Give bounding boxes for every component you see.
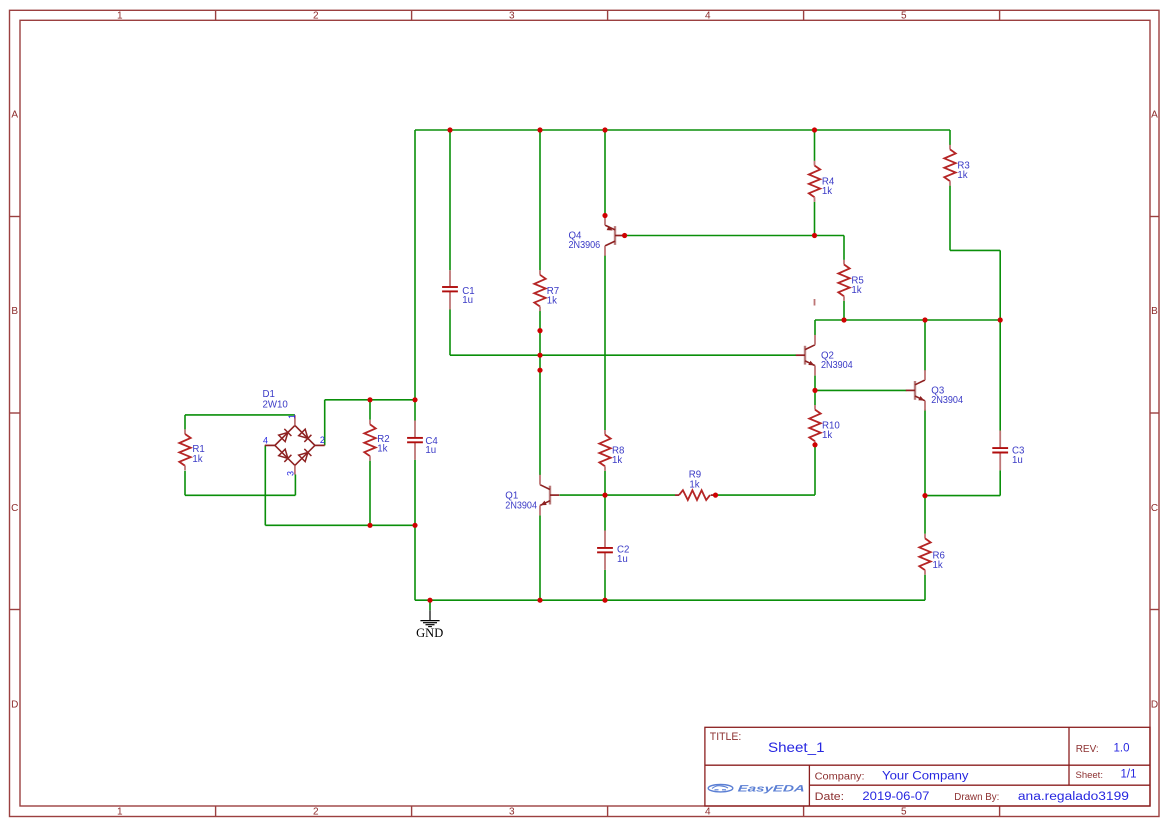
svg-text:2N3904: 2N3904 xyxy=(931,395,963,406)
svg-text:1u: 1u xyxy=(425,445,436,456)
svg-text:GND: GND xyxy=(416,626,443,640)
svg-text:4: 4 xyxy=(263,436,268,446)
svg-text:1k: 1k xyxy=(612,455,622,466)
svg-text:TITLE:: TITLE: xyxy=(710,731,742,743)
svg-text:2: 2 xyxy=(313,807,319,818)
svg-text:2: 2 xyxy=(320,435,325,445)
svg-text:2W10: 2W10 xyxy=(263,400,289,411)
svg-text:1/1: 1/1 xyxy=(1121,769,1137,781)
svg-text:1k: 1k xyxy=(851,285,861,296)
svg-text:2019-06-07: 2019-06-07 xyxy=(862,791,929,803)
svg-text:D: D xyxy=(1151,699,1158,710)
svg-text:1k: 1k xyxy=(377,443,387,454)
svg-text:Your Company: Your Company xyxy=(882,771,969,783)
svg-text:Drawn By:: Drawn By: xyxy=(954,792,999,803)
svg-text:4: 4 xyxy=(705,11,711,22)
svg-text:1k: 1k xyxy=(933,560,943,571)
svg-text:Date:: Date: xyxy=(815,791,845,803)
svg-text:1u: 1u xyxy=(1012,455,1023,466)
svg-text:Sheet_1: Sheet_1 xyxy=(768,740,825,755)
svg-text:1u: 1u xyxy=(617,554,628,565)
svg-text:1k: 1k xyxy=(547,295,557,306)
svg-text:1: 1 xyxy=(287,414,297,419)
svg-text:C: C xyxy=(11,503,18,514)
svg-text:1: 1 xyxy=(117,11,123,22)
svg-text:1.0: 1.0 xyxy=(1114,743,1130,755)
svg-text:1u: 1u xyxy=(462,295,473,306)
svg-text:C: C xyxy=(1151,503,1158,514)
svg-text:1: 1 xyxy=(117,807,123,818)
svg-text:D: D xyxy=(11,699,18,710)
svg-text:5: 5 xyxy=(901,807,907,818)
svg-text:2N3904: 2N3904 xyxy=(505,500,537,511)
svg-text:D1: D1 xyxy=(263,389,275,400)
svg-text:ana.regalado3199: ana.regalado3199 xyxy=(1018,791,1129,803)
svg-text:B: B xyxy=(1151,306,1158,317)
svg-text:1k: 1k xyxy=(822,430,832,441)
svg-text:A: A xyxy=(1151,110,1158,121)
svg-text:3: 3 xyxy=(509,807,515,818)
svg-text:4: 4 xyxy=(705,807,711,818)
svg-text:5: 5 xyxy=(901,11,907,22)
svg-text:2: 2 xyxy=(313,11,319,22)
svg-text:REV:: REV: xyxy=(1076,744,1099,755)
svg-text:EasyEDA: EasyEDA xyxy=(737,784,805,794)
svg-text:2N3906: 2N3906 xyxy=(569,240,601,251)
svg-text:Company:: Company: xyxy=(815,771,865,783)
svg-text:B: B xyxy=(11,306,18,317)
svg-text:3: 3 xyxy=(509,11,515,22)
svg-text:Sheet:: Sheet: xyxy=(1076,770,1103,781)
svg-text:1k: 1k xyxy=(689,480,699,491)
svg-text:1k: 1k xyxy=(957,170,967,181)
svg-text:2N3904: 2N3904 xyxy=(821,360,853,371)
svg-text:1k: 1k xyxy=(822,186,832,197)
svg-text:A: A xyxy=(11,110,18,121)
svg-text:1k: 1k xyxy=(192,454,202,465)
svg-text:3: 3 xyxy=(286,471,296,476)
